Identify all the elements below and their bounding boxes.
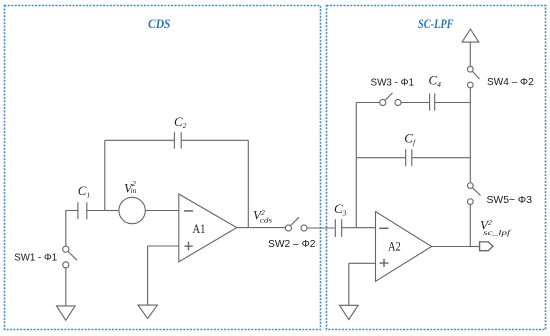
wire A2 non-inverting input [349, 262, 376, 264]
svg-text:C2: C2 [174, 114, 187, 130]
switch SW3 contact left [380, 99, 386, 105]
wire SW4 to node Y C4 junction [469, 88, 471, 103]
svg-text:SW4 – Φ2: SW4 – Φ2 [487, 77, 534, 88]
wire A1 non-inverting input [148, 245, 179, 247]
wire SW3 to C4 [401, 102, 430, 104]
switch SW3 contact right [395, 99, 401, 105]
node A junction of C2 left leg and input row [105, 210, 119, 212]
ground symbol under A1 [138, 305, 157, 318]
svg-text:C3: C3 [334, 201, 347, 217]
svg-text:SW1 - Φ1: SW1 - Φ1 [14, 253, 57, 264]
node Y junction wire to output port [470, 246, 479, 248]
svg-text:SW3 - Φ1: SW3 - Φ1 [371, 78, 415, 89]
wire C4 to node Y [435, 102, 471, 104]
switch SW1 blade [68, 252, 77, 261]
wire Cf to node Y [412, 157, 470, 159]
wire SW1 vertical top [65, 211, 67, 247]
wire supply to SW4 [469, 42, 471, 66]
wire A2 plus to ground [348, 263, 350, 305]
op-amp A2 non-inverting pin mark [380, 259, 389, 267]
power supply arrow symbol [462, 29, 479, 42]
switch SW4 blade [472, 71, 479, 79]
wire C1 to node A [87, 210, 105, 212]
wire C2 top right segment [181, 139, 248, 141]
wire node Y Cf junction to SW5 [469, 158, 471, 183]
node X junction wire to A2 inverting input [356, 227, 375, 229]
op-amp A2 inverting pin mark [379, 227, 388, 229]
capacitor Cf [406, 149, 412, 166]
svg-text:Cf: Cf [404, 130, 416, 147]
wire source to A1 inverting input [145, 210, 179, 212]
ground symbol under A2 [340, 305, 359, 319]
svg-text:C4: C4 [429, 73, 442, 89]
wire A2 output [432, 246, 471, 248]
voltage source Vin circle [119, 197, 145, 223]
svg-text:C1: C1 [78, 183, 90, 199]
wire A1 output [237, 227, 249, 229]
svg-text:SW5− Φ3: SW5− Φ3 [487, 195, 533, 206]
wire node X riser lower segment [355, 158, 357, 228]
switch SW1 contact bottom [63, 262, 69, 268]
node B junction of C2 right leg and A1 output [248, 227, 285, 229]
wire node Y C4 junction to Cf junction [469, 103, 471, 158]
wire SW5 to output row [469, 205, 471, 247]
op-amp A1 inverting pin mark [184, 210, 193, 212]
output port terminal Vsc_lpf [480, 242, 493, 251]
capacitor C2 [174, 132, 181, 148]
svg-text:A2: A2 [388, 239, 401, 253]
op-amp A1 [179, 194, 237, 262]
wire SW3 row left [356, 102, 380, 104]
svg-text:V2in: V2in [124, 179, 137, 196]
switch SW3 blade [385, 93, 393, 101]
capacitor C4 [430, 94, 435, 111]
wire SW1 to ground [65, 268, 67, 306]
switch SW2 contact right [301, 225, 307, 231]
switch SW4 contact bottom [467, 82, 473, 88]
switch SW5 contact top [467, 183, 473, 189]
SC-LPF block dashed border [327, 6, 546, 330]
svg-text:SC-LPF: SC-LPF [418, 17, 454, 31]
switch SW4 contact top [467, 66, 473, 72]
svg-text:SW2 – Φ2: SW2 – Φ2 [268, 239, 316, 250]
wire C2 left leg [104, 140, 106, 210]
switch SW5 blade [472, 188, 480, 196]
switch SW1 contact top [63, 246, 69, 252]
svg-text:A1: A1 [193, 222, 206, 236]
wire C2 top left segment [105, 139, 175, 141]
wire A1 plus to ground [147, 246, 149, 305]
svg-text:V2cds: V2cds [253, 207, 272, 224]
switch SW5 contact bottom [467, 199, 473, 205]
wire SW2 to C3 [307, 227, 334, 229]
ground symbol under SW1 [57, 306, 76, 320]
node X-Cf junction riser upper segment [355, 103, 357, 158]
wire C3 to node X [342, 227, 357, 229]
capacitor C1 [78, 202, 87, 219]
svg-text:CDS: CDS [148, 17, 171, 31]
capacitor C3 [335, 219, 341, 237]
wire C2 right leg [247, 140, 249, 227]
switch SW2 contact left [285, 225, 291, 231]
wire input row left [66, 210, 78, 212]
svg-text:V2sc_lpf: V2sc_lpf [480, 218, 511, 238]
op-amp A1 non-inverting pin mark [184, 242, 192, 251]
wire Cf row left [356, 157, 405, 159]
switch SW2 blade [290, 217, 299, 226]
CDS block dashed border [5, 6, 321, 330]
op-amp A2 [376, 212, 432, 282]
